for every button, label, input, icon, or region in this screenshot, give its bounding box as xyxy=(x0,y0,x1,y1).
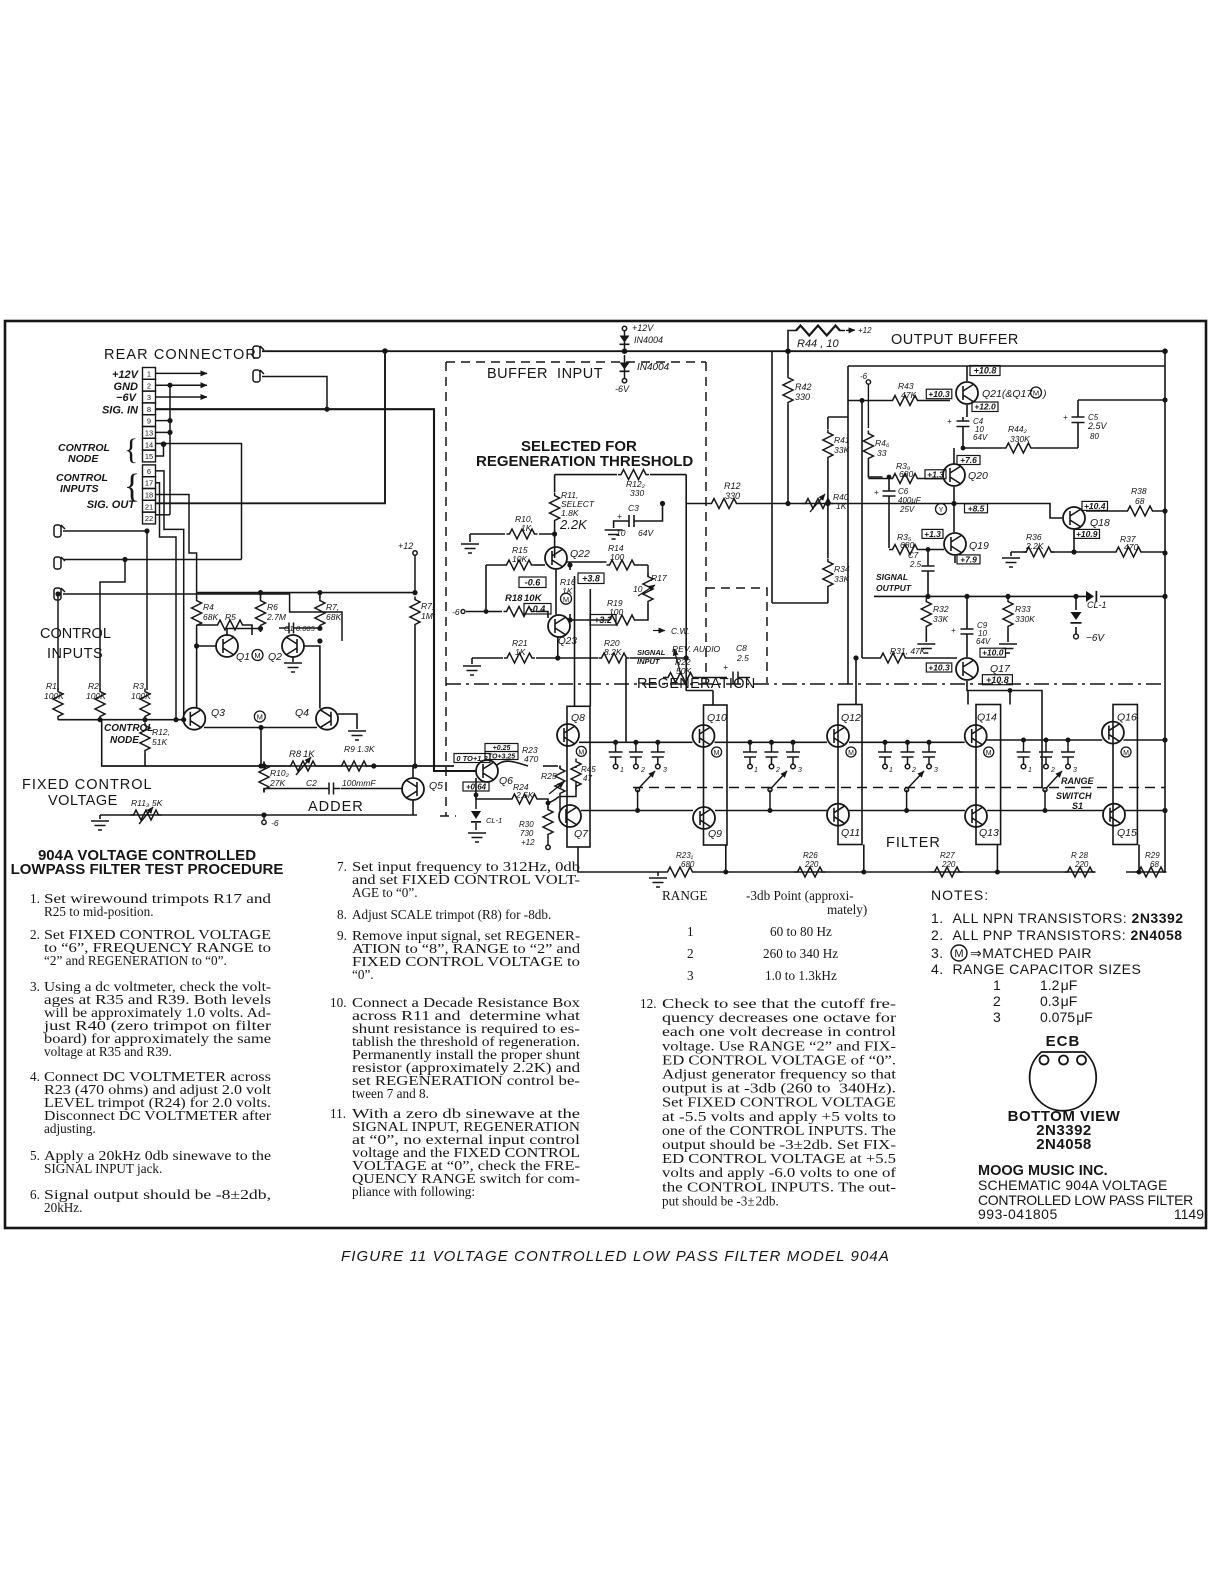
resistor R15 10K xyxy=(504,560,535,570)
svg-text:80: 80 xyxy=(1090,432,1099,441)
svg-text:Q11: Q11 xyxy=(841,827,860,839)
svg-text:64V: 64V xyxy=(973,433,988,442)
dashed box buffer input left edge xyxy=(445,362,447,816)
svg-text:33K: 33K xyxy=(933,614,948,624)
voltage box +3.8 xyxy=(578,573,604,584)
mark M Q14 xyxy=(984,747,994,757)
terminal -6 (R46) xyxy=(866,380,870,428)
svg-text:CL-1: CL-1 xyxy=(486,816,502,825)
svg-text:TO+3.25: TO+3.25 xyxy=(488,754,515,761)
voltage box +0.64 xyxy=(463,782,489,791)
right rail xyxy=(1164,351,1166,872)
box Q10 Q9 xyxy=(704,705,728,845)
top rail segments xyxy=(579,740,1165,742)
svg-text:+10.3: +10.3 xyxy=(928,389,950,399)
wire top rail xyxy=(579,740,1165,742)
transistor Q19 xyxy=(944,533,966,555)
wire pin6 run xyxy=(156,471,184,719)
wire Q6 base/emitter xyxy=(476,778,509,799)
svg-text:-3db Point (approxi-: -3db Point (approxi- xyxy=(746,888,854,903)
svg-text:470: 470 xyxy=(1124,542,1138,552)
svg-text:“0”.: “0”. xyxy=(352,967,374,982)
wire Q23 to R19 xyxy=(570,619,607,621)
transistor Q7 xyxy=(559,805,581,827)
trimpot R22 50K regeneration xyxy=(663,677,727,679)
svg-text:+12: +12 xyxy=(398,541,413,551)
svg-text:at -5.5 volts and apply +5 vol: at -5.5 volts and apply +5 volts to xyxy=(662,1109,897,1124)
svg-text:6: 6 xyxy=(147,467,151,476)
svg-text:14: 14 xyxy=(145,440,153,449)
svg-text:R5: R5 xyxy=(225,612,236,622)
svg-text:18: 18 xyxy=(145,491,153,500)
svg-text:Q20: Q20 xyxy=(968,470,988,482)
svg-text:C8: C8 xyxy=(736,643,747,653)
svg-text:Q18: Q18 xyxy=(1090,517,1110,529)
wire R15 to Q22 xyxy=(535,564,546,566)
transistor Q2 xyxy=(282,635,304,657)
svg-text:1.: 1. xyxy=(30,891,40,906)
svg-text:−6V: −6V xyxy=(116,392,138,404)
svg-text:1: 1 xyxy=(754,767,758,774)
svg-text:NODE: NODE xyxy=(110,735,139,746)
svg-text:9.: 9. xyxy=(337,928,347,943)
wire -6 row xyxy=(466,565,486,612)
wire main top bus +12 xyxy=(262,350,1165,352)
wire R10b top xyxy=(263,762,265,767)
svg-text:Q16: Q16 xyxy=(1117,712,1137,724)
svg-text:R27: R27 xyxy=(940,851,955,860)
svg-text:0.3 μF: 0.3 μF xyxy=(1040,993,1077,1009)
svg-text:47K: 47K xyxy=(901,390,916,400)
svg-text:2: 2 xyxy=(147,381,151,390)
voltage box +0.25 TO+3.25 xyxy=(485,744,518,760)
svg-text:+: + xyxy=(1063,413,1068,422)
svg-text:R45: R45 xyxy=(581,765,596,774)
svg-text:1: 1 xyxy=(620,767,624,774)
svg-text:Q17: Q17 xyxy=(990,663,1011,675)
R11 top riser xyxy=(554,475,556,492)
wire R15 left xyxy=(486,564,504,566)
svg-text:33K: 33K xyxy=(834,574,849,584)
riser Q22 node to filter xyxy=(574,576,576,706)
wire jack2 to R2 xyxy=(100,560,125,691)
riser from regeneration to Q10 box xyxy=(626,658,713,742)
svg-text:+12V: +12V xyxy=(632,323,654,333)
svg-text:R9: R9 xyxy=(344,744,355,754)
svg-text:M: M xyxy=(1123,750,1129,757)
svg-text:260 to 340 Hz: 260 to 340 Hz xyxy=(763,946,838,961)
svg-text:2: 2 xyxy=(775,767,780,774)
svg-text:4. RANGE CAPACITOR SIZES: 4. RANGE CAPACITOR SIZES xyxy=(931,961,1141,977)
svg-text:adjusting.: adjusting. xyxy=(44,1121,96,1136)
wire gnd vertical from pin2 xyxy=(169,385,171,515)
gnd stem R10 xyxy=(469,534,471,542)
svg-text:Q8: Q8 xyxy=(571,712,585,724)
signal output wire xyxy=(874,595,1165,597)
box Q12 Q11 xyxy=(838,705,862,845)
svg-text:M: M xyxy=(257,713,263,722)
svg-text:{: { xyxy=(124,468,140,505)
wire Q6 collector to R23 xyxy=(497,761,528,766)
svg-text:25V: 25V xyxy=(899,505,915,514)
svg-text:the CONTROL INPUTS. The out-: the CONTROL INPUTS. The out- xyxy=(662,1179,896,1194)
svg-text:12.: 12. xyxy=(640,996,656,1011)
svg-text:2.: 2. xyxy=(30,927,40,942)
box Q14 Q13 xyxy=(976,705,1001,845)
wire Q21 collector xyxy=(966,366,968,381)
resistor R7 68K xyxy=(315,598,325,629)
svg-text:volts and apply -6.0 volts to: volts and apply -6.0 volts to one of xyxy=(662,1165,897,1180)
svg-text:R25: R25 xyxy=(541,771,557,781)
svg-text:0 TO+1.2: 0 TO+1.2 xyxy=(456,754,488,763)
terminal -6 xyxy=(461,610,465,614)
svg-text:680: 680 xyxy=(900,540,914,550)
svg-text:+10.3: +10.3 xyxy=(928,663,950,673)
svg-text:+: + xyxy=(617,511,622,521)
resistor R20 8.2K xyxy=(599,653,630,663)
svg-text:REAR CONNECTOR: REAR CONNECTOR xyxy=(104,347,257,363)
svg-text:3: 3 xyxy=(993,1009,1001,1025)
voltage box -0.4 xyxy=(524,604,551,615)
resistor R30 730 xyxy=(547,803,549,808)
wire R1 stub xyxy=(57,689,59,720)
resistor R33 330K xyxy=(1007,596,1009,642)
box Q16 Q15 xyxy=(1113,705,1137,845)
rail +12 adder xyxy=(197,592,415,594)
svg-text:FIXED CONTROL VOLTAGE to: FIXED CONTROL VOLTAGE to xyxy=(352,954,581,969)
svg-text:27K: 27K xyxy=(269,778,285,788)
verticals box bottoms to emitter rail xyxy=(726,845,1139,873)
diode CL-1a xyxy=(1086,591,1097,602)
switch S1a xyxy=(636,788,640,811)
wire jack3 row xyxy=(63,594,342,641)
jack J-top2 xyxy=(253,370,264,382)
svg-text:RANGE: RANGE xyxy=(662,888,707,903)
svg-text:CONTROL: CONTROL xyxy=(104,723,153,734)
svg-text:+7.9: +7.9 xyxy=(960,554,977,564)
resistor R46 33 xyxy=(863,431,873,462)
svg-text:R31, 47K: R31, 47K xyxy=(890,646,926,656)
svg-text:M: M xyxy=(714,750,720,757)
wire bottom rail xyxy=(100,814,417,816)
wire fixed control row xyxy=(102,765,287,767)
jack J-in2 xyxy=(54,557,65,569)
wire pin18 run xyxy=(156,495,197,593)
svg-text:Q4: Q4 xyxy=(295,707,309,719)
wire summing node row xyxy=(58,719,184,721)
svg-text:330: 330 xyxy=(795,392,810,402)
svg-text:1: 1 xyxy=(687,924,694,939)
voltage box 0 TO+1.2 xyxy=(454,754,490,763)
resistor R41 33K xyxy=(828,417,848,504)
box Q8 Q7 xyxy=(567,706,590,847)
svg-text:+3.8: +3.8 xyxy=(582,574,600,584)
svg-text:M: M xyxy=(563,595,569,604)
wire pin2 arrow xyxy=(156,384,208,386)
svg-text:put should be -3± 2db.: put should be -3± 2db. xyxy=(662,1193,779,1208)
svg-text:+12.0: +12.0 xyxy=(974,402,996,412)
wire Q23 node xyxy=(569,614,571,620)
trimpot R8 1K xyxy=(288,761,319,771)
switch S1b xyxy=(768,788,772,811)
wire R18 to Q23 xyxy=(536,612,548,619)
svg-text:R33: R33 xyxy=(1015,604,1031,614)
svg-text:ADDER: ADDER xyxy=(308,799,364,815)
svg-text:-6: -6 xyxy=(860,372,868,381)
svg-text:1.0 to 1.3kHz: 1.0 to 1.3kHz xyxy=(765,968,837,983)
svg-text:M: M xyxy=(1033,389,1039,398)
wire pin17 run xyxy=(156,483,177,719)
dashed box top edge xyxy=(446,361,706,363)
capacitor C8 2.5 xyxy=(733,672,750,684)
svg-text:INPUTS: INPUTS xyxy=(47,646,103,662)
svg-text:C7: C7 xyxy=(908,551,919,560)
transistor Q12 xyxy=(827,725,849,747)
capacitor C5 2.5V 80 xyxy=(1072,400,1166,448)
trimpot R17 xyxy=(647,565,649,577)
jack J-top1 xyxy=(253,346,264,358)
wire R21 row with gnd xyxy=(472,658,686,664)
diode CR2 IN4004 xyxy=(620,363,630,373)
svg-text:1.2 μF: 1.2 μF xyxy=(1040,977,1077,993)
mark M Q16 xyxy=(1121,747,1131,757)
wire Q17 emitter to filter xyxy=(967,681,1042,788)
svg-text:Q3: Q3 xyxy=(211,707,225,719)
svg-text:Adjust generator frequency so: Adjust generator frequency so that xyxy=(662,1067,896,1082)
svg-text:Q22: Q22 xyxy=(570,548,590,560)
wire Q19 emitter to gnd R36 xyxy=(954,556,956,563)
svg-text:R8: R8 xyxy=(289,749,302,760)
svg-text:1K: 1K xyxy=(521,523,532,533)
svg-text:2.2K: 2.2K xyxy=(1025,541,1044,551)
dashed box corner foot xyxy=(440,815,456,817)
svg-text:ED CONTROL VOLTAGE at +5.5: ED CONTROL VOLTAGE at +5.5 xyxy=(662,1151,897,1166)
svg-text:+1.3: +1.3 xyxy=(927,469,944,479)
svg-text:+: + xyxy=(874,488,879,497)
voltage box +8.5 xyxy=(965,504,988,513)
ground emitter rail xyxy=(649,878,667,887)
svg-text:{: { xyxy=(124,433,138,466)
svg-text:4.: 4. xyxy=(30,1069,40,1084)
wire C4 row to C5 xyxy=(954,448,1078,464)
svg-text:2: 2 xyxy=(640,767,645,774)
capacitor C3 10 64V xyxy=(614,504,663,529)
svg-text:10K: 10K xyxy=(524,593,543,604)
resistor R7b 1M xyxy=(410,597,420,628)
svg-text:ECB: ECB xyxy=(1046,1033,1081,1050)
svg-text:330: 330 xyxy=(725,491,740,501)
svg-text:Check to see that the cutoff f: Check to see that the cutoff fre- xyxy=(662,996,896,1011)
svg-text:R1: R1 xyxy=(46,681,57,691)
resistor R39 680 xyxy=(868,478,942,480)
resistor R44b 330K xyxy=(1003,443,1034,453)
svg-text:3: 3 xyxy=(934,767,938,774)
wire Q20 emitter to main xyxy=(953,487,955,532)
svg-text:730: 730 xyxy=(520,829,534,838)
svg-text:1. ALL NPN TRANSISTORS: 2N339: 1. ALL NPN TRANSISTORS: 2N3392 xyxy=(931,910,1184,926)
svg-text:2. ALL PNP TRANSISTORS: 2N405: 2. ALL PNP TRANSISTORS: 2N4058 xyxy=(931,927,1183,943)
svg-text:100K: 100K xyxy=(131,691,151,701)
svg-text:+10.0: +10.0 xyxy=(982,648,1004,658)
wire pin15 loop to pin14 xyxy=(156,444,164,456)
svg-text:3: 3 xyxy=(147,393,151,402)
svg-text:CONTROL: CONTROL xyxy=(40,626,111,642)
svg-text:SIGNAL INPUT jack.: SIGNAL INPUT jack. xyxy=(44,1161,162,1176)
svg-text:OUTPUT BUFFER: OUTPUT BUFFER xyxy=(891,332,1019,348)
matched pair mark M (Q3 Q4) xyxy=(254,711,265,722)
svg-text:33K: 33K xyxy=(834,445,849,455)
voltage box +12.0 (Q21) xyxy=(972,402,998,412)
svg-text:-6V: -6V xyxy=(615,384,630,394)
svg-text:330K: 330K xyxy=(1010,434,1030,444)
svg-text:REGENERATION THRESHOLD: REGENERATION THRESHOLD xyxy=(476,453,693,470)
range capacitors group 2 xyxy=(743,742,800,769)
resistor R38 68 xyxy=(1086,510,1165,512)
svg-text:+: + xyxy=(723,662,728,672)
svg-text:C3: C3 xyxy=(628,503,639,513)
svg-text:5.: 5. xyxy=(30,1148,40,1163)
range table xyxy=(662,888,867,983)
resistor R29 68 xyxy=(1136,867,1167,877)
svg-text:+10.8: +10.8 xyxy=(974,366,997,376)
svg-text:R6: R6 xyxy=(267,602,278,612)
svg-text:-6: -6 xyxy=(271,818,279,828)
mark Y node xyxy=(936,504,947,515)
jack J-in3 xyxy=(54,588,65,600)
svg-text:R26: R26 xyxy=(803,851,818,860)
transistor Q20 xyxy=(943,464,965,486)
gnd stem xyxy=(99,815,101,819)
resistor R18 10K xyxy=(504,607,535,617)
transistor Q14 xyxy=(965,725,987,747)
label CONTROL NODE (handwritten) xyxy=(104,723,153,746)
svg-text:47: 47 xyxy=(583,774,592,783)
inner loop right edge xyxy=(685,475,687,691)
gnd stem xyxy=(657,872,659,876)
svg-text:FILTER: FILTER xyxy=(886,835,941,851)
note 3 matched-pair M symbol xyxy=(951,945,967,961)
svg-text:68K: 68K xyxy=(326,612,341,622)
svg-text:10.: 10. xyxy=(330,995,346,1010)
svg-text:R44₂: R44₂ xyxy=(1008,424,1028,434)
svg-text:+12: +12 xyxy=(521,838,535,847)
svg-text:20kHz.: 20kHz. xyxy=(44,1200,82,1215)
label SIGNAL OUTPUT xyxy=(876,572,912,593)
resistor R35 680 xyxy=(889,549,944,551)
svg-text:68K: 68K xyxy=(203,612,218,622)
resistor R2 100K xyxy=(95,689,105,720)
svg-text:10K: 10K xyxy=(512,554,527,564)
svg-text:1: 1 xyxy=(147,370,151,379)
svg-text:17: 17 xyxy=(145,479,153,488)
svg-text:+8.5: +8.5 xyxy=(968,503,985,513)
wire Q1 base xyxy=(197,645,216,647)
transistor Q21 xyxy=(956,382,978,404)
svg-text:M: M xyxy=(578,749,584,756)
svg-text:R23₁: R23₁ xyxy=(676,851,694,860)
switch S1c xyxy=(905,788,909,811)
svg-text:6.: 6. xyxy=(30,1187,40,1202)
svg-text:1: 1 xyxy=(1028,767,1032,774)
bottom rail xyxy=(581,810,1165,812)
node to fixed-voltage row xyxy=(102,720,454,766)
transistor Q17 xyxy=(956,658,978,680)
transistor Q6 xyxy=(476,760,498,782)
supply diode chain CR1/CR2 xyxy=(622,326,626,383)
wire pin14 to node xyxy=(156,444,242,560)
procedure item 12 xyxy=(640,996,897,1208)
svg-text:2.5: 2.5 xyxy=(736,653,749,663)
inner loop top wire xyxy=(555,474,687,476)
wire Q21 emitter to C4 xyxy=(963,405,967,448)
wire R18 xyxy=(486,611,502,613)
trimpot R40 1K xyxy=(803,499,834,509)
voltage box -0.6 xyxy=(519,577,546,588)
svg-text:C1: C1 xyxy=(284,624,294,633)
svg-text:OUTPUT: OUTPUT xyxy=(876,583,912,593)
svg-text:7.: 7. xyxy=(337,859,347,874)
svg-text:3: 3 xyxy=(1073,767,1077,774)
svg-text:R32: R32 xyxy=(933,604,949,614)
wire jack2 to sig-in xyxy=(262,377,327,410)
svg-text:1K: 1K xyxy=(515,647,526,657)
capacitor C7 2.5 xyxy=(922,550,935,597)
wire Q2 emitter gnd xyxy=(292,657,294,662)
voltage box +7.9 (Q19) xyxy=(957,555,980,564)
diode CL-1 (Q6) xyxy=(475,795,477,830)
wire emitter rail xyxy=(578,847,1165,872)
svg-text:1M: 1M xyxy=(421,611,434,621)
trimpot R25 xyxy=(548,797,559,804)
trimpot R11a 5K xyxy=(131,810,162,820)
diode CL-1 clamp xyxy=(1075,596,1077,634)
svg-text:each one volt decrease in cont: each one volt decrease in control xyxy=(662,1024,896,1039)
svg-text:C6: C6 xyxy=(898,487,909,496)
svg-text:+12: +12 xyxy=(858,326,872,335)
voltage box +10.3 (R43) xyxy=(926,389,952,399)
svg-text:FIXED CONTROL: FIXED CONTROL xyxy=(22,777,153,793)
svg-text:Q14: Q14 xyxy=(977,712,997,724)
svg-text:Q7: Q7 xyxy=(574,828,589,840)
svg-text:2.5K: 2.5K xyxy=(515,790,534,800)
range capacitors group 4 xyxy=(1017,740,1076,769)
svg-text:C.W.: C.W. xyxy=(671,626,690,636)
ground CL-1 xyxy=(468,833,486,842)
svg-text:“2” and REGENERATION to “0”.: “2” and REGENERATION to “0”. xyxy=(44,953,227,968)
wire R6 bottom xyxy=(260,629,262,633)
wire Q5 emitter xyxy=(412,800,414,815)
svg-text:Q9: Q9 xyxy=(708,828,722,840)
svg-text:64V: 64V xyxy=(638,528,654,538)
mark M Q10 xyxy=(712,747,722,757)
transistor Q15 xyxy=(1103,804,1125,826)
svg-text:Q19: Q19 xyxy=(969,540,989,552)
wire jack1 row xyxy=(63,531,147,690)
junction sig-out riser top xyxy=(382,348,388,354)
wire bottom rail xyxy=(581,810,1165,812)
transistor Q18 xyxy=(1063,507,1085,529)
svg-text:470: 470 xyxy=(524,754,538,764)
wire sig-in pin8 bold xyxy=(156,409,477,771)
transistor Q13 xyxy=(965,805,987,827)
resistor R43 47K xyxy=(848,400,950,402)
svg-text:+: + xyxy=(951,626,956,635)
svg-text:2.2K: 2.2K xyxy=(559,517,588,532)
svg-text:220: 220 xyxy=(941,860,956,869)
svg-text:68: 68 xyxy=(1135,496,1145,506)
svg-text:Set FIXED CONTROL VOLTAGE: Set FIXED CONTROL VOLTAGE xyxy=(662,1095,896,1110)
ground R10 xyxy=(461,544,479,553)
